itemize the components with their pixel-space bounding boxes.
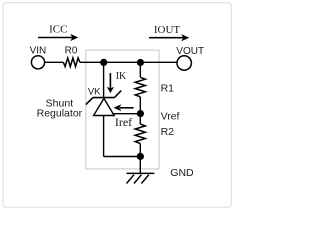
svg-text:ICC: ICC bbox=[49, 24, 67, 36]
wire R2 to bottom node bbox=[139, 144, 141, 157]
node A junction dot bbox=[100, 59, 107, 66]
terminal VOUT bbox=[177, 56, 191, 70]
svg-text:Iref: Iref bbox=[115, 115, 132, 129]
wire anode bottom horizontal bbox=[104, 156, 141, 158]
wire VIN to R0 bbox=[45, 61, 64, 63]
svg-text:R1: R1 bbox=[161, 83, 175, 95]
svg-text:VIN: VIN bbox=[30, 45, 47, 56]
shunt regulator cathode bend left bbox=[86, 98, 93, 105]
svg-text:R2: R2 bbox=[161, 126, 175, 138]
wire R0 to VOUT bbox=[80, 61, 177, 63]
terminal VIN bbox=[31, 56, 44, 69]
outer frame bbox=[3, 3, 231, 208]
Vref node junction dot bbox=[137, 110, 144, 117]
node B junction dot bbox=[137, 59, 144, 66]
shunt regulator VK cathode bar bbox=[93, 97, 115, 99]
wire node A down to cathode bbox=[103, 62, 105, 97]
arrow IOUT bbox=[149, 34, 189, 41]
shunt regulator cathode bend right bbox=[114, 91, 121, 98]
svg-text:IK: IK bbox=[116, 71, 127, 82]
svg-text:GND: GND bbox=[170, 167, 194, 179]
wire ref pin to Vref node bbox=[112, 113, 141, 115]
wire anode down bbox=[103, 116, 105, 157]
wire node B down to R1 bbox=[139, 63, 141, 78]
ground bbox=[127, 173, 155, 183]
bottom node junction dot bbox=[137, 153, 144, 160]
svg-text:VOUT: VOUT bbox=[176, 46, 204, 57]
svg-text:IOUT: IOUT bbox=[154, 24, 181, 36]
arrow IK bbox=[107, 73, 114, 93]
IC body box bbox=[86, 50, 159, 169]
wire bottom node to ground bbox=[139, 157, 141, 174]
arrow ICC bbox=[38, 34, 78, 41]
arrow Iref bbox=[114, 104, 134, 111]
svg-text:Regulator: Regulator bbox=[37, 108, 83, 120]
resistor R1 bbox=[135, 77, 145, 97]
wire R1 to Vref node bbox=[139, 97, 141, 124]
svg-text:VK: VK bbox=[88, 86, 101, 97]
svg-text:Vref: Vref bbox=[161, 110, 180, 122]
resistor R0 bbox=[63, 58, 80, 67]
shunt regulator triangle bbox=[94, 98, 115, 115]
resistor R2 bbox=[135, 124, 145, 144]
svg-text:R0: R0 bbox=[65, 45, 78, 56]
